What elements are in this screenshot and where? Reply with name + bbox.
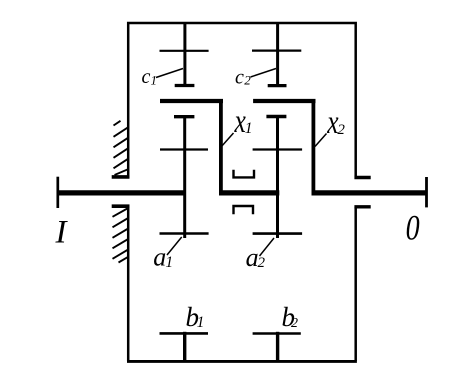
svg-text:2: 2	[291, 316, 298, 331]
svg-text:1: 1	[165, 254, 173, 271]
svg-text:2: 2	[337, 122, 345, 138]
svg-text:1: 1	[151, 73, 158, 88]
svg-text:a: a	[153, 243, 166, 272]
svg-text:c: c	[235, 67, 244, 89]
svg-text:1: 1	[197, 314, 205, 331]
svg-text:c: c	[142, 66, 151, 88]
svg-text:0: 0	[406, 207, 420, 247]
svg-text:2: 2	[244, 72, 251, 87]
svg-text:2: 2	[258, 255, 266, 271]
svg-text:1: 1	[245, 120, 253, 137]
svg-text:I: I	[55, 214, 69, 250]
